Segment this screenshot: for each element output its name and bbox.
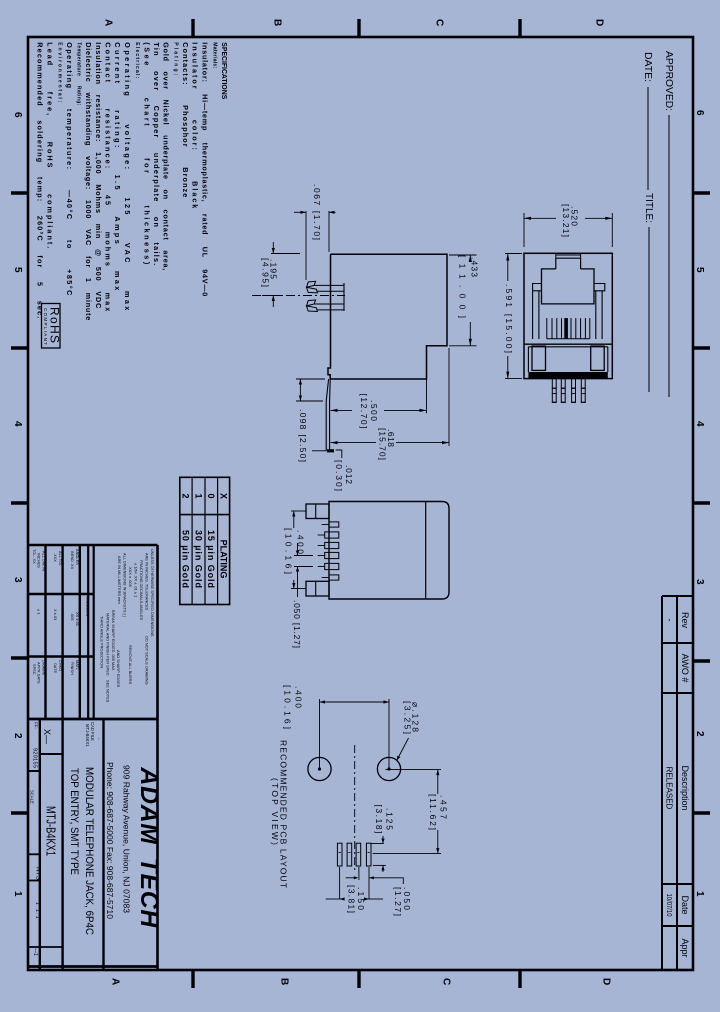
svg-text:SPECIFICATIONS: SPECIFICATIONS [220, 42, 229, 99]
zone boundary ticks top edge [191, 19, 194, 38]
svg-text:C: C [433, 19, 444, 26]
svg-text:[12.70]: [12.70] [359, 394, 369, 429]
svg-text:.433: .433 [470, 257, 480, 277]
svg-text:DATE: DATE [53, 663, 58, 673]
svg-text:Phone: 908-687-5000 Fax: 908-6: Phone: 908-687-5000 Fax: 908-687-5710 [105, 762, 115, 919]
front view contact solid bar [564, 318, 568, 339]
bottom view face line [425, 502, 427, 600]
dim .012 extension and leader [312, 450, 326, 452]
svg-text:Contacts: Phosphor Bronze: Contacts: Phosphor Bronze [181, 42, 190, 197]
side view body outline [330, 254, 447, 379]
svg-text:DATE:: DATE: [642, 52, 654, 82]
svg-text:ARE IN MILLIMETERS mm: ARE IN MILLIMETERS mm [117, 556, 122, 604]
svg-text:UNLESS OTHERWISE SPECIFIED DIM: UNLESS OTHERWISE SPECIFIED DIMENSIONS [150, 549, 155, 637]
svg-text:THIRD ANGLE PROJECTION: THIRD ANGLE PROJECTION [100, 616, 105, 668]
pcb dim .150 extensions [339, 867, 341, 899]
svg-text:FINISH: FINISH [70, 662, 75, 675]
svg-text:Operating temperature: —40°C t: Operating temperature: —40°C to +85°C [65, 42, 74, 295]
pcb dim .050 line [346, 877, 356, 879]
svg-text:4: 4 [694, 421, 705, 427]
svg-text:BREAK SHARP EDGES .005 MAX: BREAK SHARP EDGES .005 MAX [111, 610, 116, 671]
plating table grid [180, 477, 230, 604]
dim .500 line [331, 409, 353, 411]
svg-text:.XXX: .XXX [53, 553, 58, 562]
pcb layout mounting hole right [377, 757, 400, 780]
bottom view dim .050 extension lines [294, 555, 313, 557]
svg-text:—1: —1 [32, 948, 38, 956]
front view bottom thick band [528, 372, 607, 378]
dim .195 extension line top [271, 253, 300, 255]
bottom view dim .050 line [297, 543, 299, 556]
svg-text:0: 0 [206, 493, 216, 498]
svg-text:X—: X— [42, 729, 52, 744]
RoHS compliant logo [42, 304, 61, 349]
svg-text:± 1/64 .XX ± .01 ± 1: ± 1/64 .XX ± .01 ± 1 [134, 563, 139, 597]
dim .067 line [294, 211, 306, 213]
bottom view post lower [306, 581, 329, 596]
side view centerline dash-dot [252, 295, 345, 297]
svg-text:D: D [593, 19, 604, 26]
side view left edge with jog [328, 254, 331, 379]
svg-text:5: 5 [12, 267, 23, 273]
svg-text:6: 6 [694, 110, 705, 116]
svg-text:.X ±.03: .X ±.03 [53, 608, 58, 620]
svg-text:MTJ-B4KX1: MTJ-B4KX1 [85, 724, 90, 747]
svg-text:2: 2 [694, 731, 705, 737]
front view pins [551, 379, 553, 403]
svg-text:SCALE: SCALE [30, 790, 35, 804]
dim .433 extension lines [449, 254, 477, 256]
svg-text:ADAM TECH: ADAM TECH [135, 766, 163, 928]
svg-text:920155: 920155 [32, 748, 38, 768]
svg-text:TOL .XX: TOL .XX [32, 549, 37, 564]
dim .618 extension line [448, 348, 450, 446]
svg-text:Plating:: Plating: [173, 42, 179, 75]
svg-text:.050 [1.27]: .050 [1.27] [292, 600, 302, 648]
dim .067 extension lines [305, 211, 307, 280]
svg-text:10/07/10: 10/07/10 [665, 894, 674, 917]
front view cavity key block [555, 258, 557, 269]
svg-text:DO NOT SCALE DRAWING: DO NOT SCALE DRAWING [145, 636, 150, 685]
svg-text:.012: .012 [344, 465, 354, 484]
title block lower grid [39, 719, 41, 970]
svg-text:.400: .400 [294, 686, 304, 708]
svg-text:AWO #: AWO # [680, 654, 690, 683]
front view contact comb [546, 318, 548, 339]
svg-text:6: 6 [12, 112, 23, 118]
pcb pads [337, 843, 342, 866]
dim .500 extension line [426, 348, 428, 413]
dim .618 line [331, 442, 377, 444]
svg-text:1: 1 [193, 493, 203, 498]
pcb pad center leader to .457 [373, 853, 441, 855]
svg-text:SEE NOTES: SEE NOTES [106, 680, 111, 703]
svg-text:Date: Date [680, 895, 690, 914]
front view cavity upper outline [542, 269, 595, 304]
svg-text:A: A [109, 978, 120, 985]
bottom view contact tails [329, 522, 339, 527]
svg-text:Gold over Nickel underplate on: Gold over Nickel underplate on contact a… [162, 42, 171, 270]
pcb dim .457 extension from hole [386, 769, 442, 771]
front view base separation line [524, 343, 612, 345]
zone boundary ticks left edge [11, 191, 29, 194]
svg-text:[3.25]: [3.25] [403, 701, 413, 734]
svg-text:[0.30]: [0.30] [334, 460, 344, 491]
title block outer boundary [28, 544, 158, 547]
svg-text:SPEC: SPEC [32, 664, 37, 675]
svg-text:.098 [2.50]: .098 [2.50] [298, 409, 308, 462]
side view latch hook lower [307, 300, 316, 306]
svg-text:FF-: FF- [34, 722, 39, 729]
side view solder tail [326, 379, 328, 450]
svg-text:REMOVE ALL BURRS: REMOVE ALL BURRS [128, 645, 133, 685]
bottom view dim .400 line [293, 511, 295, 528]
svg-text:5: 5 [694, 267, 705, 273]
pcb dim .125 extensions [371, 843, 384, 845]
svg-text:AND SHARP EDGES: AND SHARP EDGES [116, 650, 121, 688]
pcb layout mounting hole left [308, 757, 331, 780]
side view latch hook upper [307, 281, 316, 287]
svg-text:1 . 1 . 1: 1 . 1 . 1 [34, 902, 40, 919]
front view cavity key recess [556, 254, 581, 256]
svg-text:FRACTIONS DECIMALS ANGLES: FRACTIONS DECIMALS ANGLES [139, 560, 144, 621]
svg-text:2: 2 [12, 733, 23, 739]
svg-text:TITLE:: TITLE: [643, 193, 655, 223]
svg-text:[13.21]: [13.21] [561, 204, 571, 237]
svg-text:MATERIAL AND FINISH PER SPEC: MATERIAL AND FINISH PER SPEC [106, 613, 111, 676]
svg-text:Appr: Appr [680, 938, 690, 957]
revision table grid [661, 596, 663, 970]
svg-text:Rev: Rev [680, 612, 690, 629]
svg-text:RELEASED: RELEASED [665, 767, 674, 810]
zone boundary ticks bottom edge [191, 969, 194, 988]
svg-text:Temperature Rating:: Temperature Rating: [76, 42, 82, 105]
svg-text:50 µin Gold: 50 µin Gold [181, 530, 191, 588]
svg-text:[3.18]: [3.18] [374, 805, 384, 834]
svg-text:PLATING: PLATING [218, 540, 228, 579]
svg-text:NTS: NTS [35, 867, 42, 881]
svg-text:.XXX ± .005: .XXX ± .005 [128, 566, 133, 587]
pcb dim .125 line [382, 836, 384, 844]
svg-text:± 1: ± 1 [37, 609, 42, 614]
dim .098 extension lines [296, 378, 325, 380]
svg-text:D: D [600, 978, 611, 985]
svg-text:TOP ENTRY, SMT TYPE: TOP ENTRY, SMT TYPE [68, 768, 80, 875]
zone boundary ticks right edge [692, 191, 710, 194]
svg-text:Description: Description [680, 765, 690, 810]
svg-text:.125: .125 [385, 808, 395, 830]
front view base inner walls [527, 347, 529, 372]
title block tolerance grid [44, 545, 46, 719]
pcb dim .400 line [320, 701, 390, 703]
dim .520 line [524, 217, 556, 219]
svg-text:.500: .500 [369, 400, 379, 421]
svg-text:2: 2 [181, 493, 191, 498]
dim .520 extension lines [523, 213, 525, 247]
svg-text:[11.62]: [11.62] [428, 794, 438, 830]
svg-text:COMPLIANT: COMPLIANT [43, 308, 48, 345]
svg-text:Materials:: Materials: [211, 42, 217, 68]
dim .591 extension lines [505, 253, 522, 255]
svg-text:909 Rahway Avenue, Union, NJ 0: 909 Rahway Avenue, Union, NJ 07083 [122, 765, 132, 913]
bottom view body outline [329, 502, 449, 600]
svg-text:[15.70]: [15.70] [378, 428, 388, 460]
svg-text:[3.81]: [3.81] [347, 885, 357, 913]
svg-text:1: 1 [694, 891, 705, 897]
pcb dim .457 line [437, 770, 439, 794]
svg-text:(TOP VIEW): (TOP VIEW) [270, 778, 280, 845]
front view latch window right [591, 346, 605, 370]
svg-text:30 µin Gold: 30 µin Gold [193, 530, 203, 588]
svg-text:-: - [664, 619, 674, 622]
svg-text:[10.16]: [10.16] [283, 685, 293, 729]
svg-text:X: X [218, 493, 228, 499]
front view jack body outline [524, 253, 612, 378]
svg-text:ARE IN INCHES. TOLERANCES: ARE IN INCHES. TOLERANCES [145, 553, 150, 611]
svg-text:MODULAR TELEPHONE JACK, 6P4C: MODULAR TELEPHONE JACK, 6P4C [83, 767, 95, 935]
svg-text:B: B [271, 19, 282, 26]
svg-text:Dielectric withstanding voltag: Dielectric withstanding voltage: 1000 VA… [84, 42, 93, 320]
svg-text:[11.00]: [11.00] [458, 255, 468, 318]
svg-text:APPROVED:: APPROVED: [663, 51, 675, 111]
svg-text:Electrical:: Electrical: [134, 42, 140, 78]
dim .195 line [272, 242, 274, 254]
pcb centerline [354, 745, 356, 873]
dim .591 line [507, 254, 509, 282]
side view hook attach line [343, 283, 345, 311]
svg-text:.X ANGLES: .X ANGLES [85, 596, 90, 617]
dim .098 line [299, 379, 301, 401]
pcb dim .400 extension lines [319, 699, 321, 769]
svg-text:Insulation resistance: 1,000 M: Insulation resistance: 1,000 Mohms min @… [94, 42, 103, 308]
front view latch window left [532, 346, 546, 370]
svg-text:MTJ-B4KX1: MTJ-B4KX1 [44, 806, 59, 856]
svg-text:Insulator: Hi—temp thermoplast: Insulator: Hi—temp thermoplastic, rated … [200, 42, 209, 296]
svg-text:ALL DIMENSIONS IN BRACKETS [ ]: ALL DIMENSIONS IN BRACKETS [ ] [123, 553, 128, 617]
svg-text:(See chart for thickness): (See chart for thickness) [142, 42, 151, 265]
front view side slot left [533, 284, 542, 291]
svg-text:15 µin Gold: 15 µin Gold [206, 530, 216, 588]
svg-text:[4.95]: [4.95] [261, 258, 271, 287]
svg-text:Lead free, RoHS compliant.: Lead free, RoHS compliant. [45, 42, 54, 248]
pcb dim .050 leader [384, 878, 404, 884]
dim .433 line [469, 255, 471, 259]
svg-text:RoHS: RoHS [48, 307, 62, 343]
pcb dim .150 line [326, 898, 341, 900]
svg-text:.005: .005 [70, 613, 75, 621]
svg-text:1: 1 [12, 891, 23, 897]
bottom view post upper [306, 504, 329, 519]
svg-text:Recommended soldering temp: 26: Recommended soldering temp: 260°C for 5 … [36, 42, 45, 318]
svg-text:.067 [1.70]: .067 [1.70] [312, 184, 322, 240]
svg-text:3: 3 [12, 577, 23, 583]
svg-text:4: 4 [12, 421, 23, 427]
svg-text:C: C [440, 978, 451, 985]
bottom view dim .400 extension lines [291, 510, 306, 512]
front view side slot right [594, 284, 605, 291]
pcb hole dia label leader [398, 738, 409, 759]
svg-text:A: A [102, 19, 113, 26]
svg-text:BEND .XX: BEND .XX [70, 551, 75, 570]
svg-text:B: B [278, 978, 289, 985]
svg-text:3: 3 [694, 579, 705, 585]
svg-text:[10.16]: [10.16] [284, 528, 294, 574]
svg-text:[1.27]: [1.27] [393, 887, 403, 916]
